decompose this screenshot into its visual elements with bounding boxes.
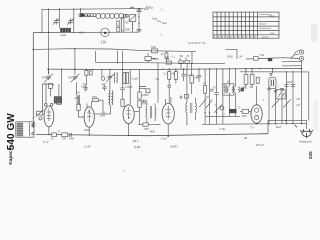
capacitor small [180, 96, 182, 99]
table outer frame [213, 12, 279, 38]
tick near plug [295, 125, 297, 127]
wire rail y32.5 [33, 31, 139, 33]
fuse lamp 1 [299, 50, 303, 54]
oscillator arrow 2 [214, 105, 222, 113]
svg-text:500Ω: 500Ω [227, 55, 233, 58]
coil winding vertical [116, 72, 119, 83]
tube T2 (AF) [84, 107, 94, 127]
wire bottom rail A [36, 134, 268, 136]
svg-text:80mA: 80mA [270, 15, 276, 18]
jack circle L10 [101, 28, 110, 37]
coil L1 big loops [96, 13, 101, 18]
svg-text:L42: L42 [75, 91, 81, 94]
trimmer box on coil end [129, 15, 136, 22]
svg-text:4000: 4000 [150, 131, 156, 134]
wire rail y49-51 [33, 49, 196, 52]
wire rail y116.4 [205, 115, 240, 117]
oscillator arrow [206, 69, 212, 124]
svg-text:2µF: 2µF [102, 83, 107, 86]
svg-text:11 AF: 11 AF [84, 146, 91, 149]
selector vertical 1 [267, 86, 271, 124]
svg-text:110: 110 [296, 104, 300, 107]
IF transformer T4 output [186, 103, 187, 113]
wire y114 [94, 113, 111, 115]
wire T2 cathode [88, 127, 90, 135]
capacitor C8 electrolytic [102, 85, 106, 91]
coil dense end loops [123, 15, 126, 18]
svg-text:1 ..: 1 .. [160, 8, 164, 11]
svg-text:Skalenl. ~ -: Skalenl. ~ - [259, 23, 269, 25]
resistor on rail [52, 133, 57, 137]
resistor boxes on rail y63 [166, 61, 171, 64]
tube T1 (output AL4) [45, 104, 48, 107]
scan speck [123, 170, 125, 172]
svg-text:AL4Z3: AL4Z3 [169, 146, 178, 149]
resistor box left of T2 [77, 104, 80, 110]
resistor rounded box x59 [57, 98, 62, 104]
resistor box x90.5 [89, 71, 92, 75]
svg-text:2000: 2000 [100, 115, 106, 118]
svg-text:0,05: 0,05 [81, 85, 86, 88]
junction dots right [162, 68, 163, 69]
capacitor near T3 [139, 87, 146, 89]
svg-text:0,05µF: 0,05µF [125, 86, 133, 89]
junction dots top section [48, 9, 49, 10]
capacitor [214, 69, 218, 124]
wire vertical x33.3 [32, 33, 34, 119]
tube T3 (AB2) [123, 105, 134, 124]
resistor box [242, 109, 248, 113]
svg-text:L7: L7 [221, 113, 225, 116]
svg-text:Wechselstrom: Wechselstrom [259, 27, 271, 30]
svg-text:L10: L10 [100, 40, 107, 44]
svg-text:4Ω: 4Ω [244, 137, 247, 140]
mains plug [295, 125, 313, 138]
capacitor bars top of x139 [137, 10, 142, 12]
electrolytic capacitor 40uF [284, 72, 288, 124]
electrolytic capacitor 2 [291, 72, 295, 124]
svg-text:A50: A50 [78, 31, 84, 35]
svg-text:500: 500 [68, 76, 73, 79]
wire y71.8 [240, 71, 309, 73]
svg-text:5,4: 5,4 [250, 127, 254, 130]
table column lines [217, 12, 258, 38]
svg-text:L·7Ω: L·7Ω [219, 128, 225, 131]
svg-text:50: 50 [58, 130, 61, 133]
svg-text:P 12: P 12 [42, 141, 49, 144]
selector arrows [272, 99, 291, 107]
antenna terminal circle [79, 14, 82, 17]
svg-text:U col: U col [161, 137, 167, 140]
thin resistor [256, 77, 259, 83]
svg-text:220V: 220V [270, 33, 275, 35]
wire corner x95.5 [95, 51, 97, 62]
svg-text:0,1µF: 0,1µF [132, 78, 139, 81]
capacitor on rail [70, 133, 72, 137]
grid cap circle [101, 70, 103, 77]
wire vertical x59.3 [58, 9, 60, 28]
wires tube T1 top [42, 84, 53, 111]
wire vertical x192 [191, 51, 193, 63]
svg-text:2W: 2W [239, 55, 243, 58]
svg-text:L8+: L8+ [146, 60, 152, 63]
capacitor C12 [182, 69, 186, 81]
capacitor C11 [141, 99, 147, 102]
barretter lamp [270, 73, 272, 75]
svg-text:20k: 20k [166, 58, 171, 61]
svg-text:50k: 50k [171, 73, 176, 76]
svg-text:5000: 5000 [241, 115, 247, 118]
mains line taps [246, 58, 299, 59]
svg-text:500k: 500k [151, 46, 157, 49]
svg-text:20µF: 20µF [276, 126, 282, 129]
svg-text:5: 5 [214, 104, 216, 107]
coil small loops [84, 14, 87, 17]
resistor R2 vertical [117, 27, 120, 32]
trimmer capacitor C2 [68, 19, 73, 25]
resistor box x205 [204, 69, 206, 86]
dark component box [230, 109, 237, 113]
oscillator coil windings [227, 87, 233, 93]
svg-text:w: w [263, 99, 265, 102]
tube T4 [162, 103, 174, 124]
svg-text:20: 20 [203, 82, 206, 85]
wire vertical x139.3 [138, 69, 140, 92]
resistor x191.7 [190, 75, 193, 83]
svg-text:(L)B2: (L)B2 [134, 146, 141, 149]
tube T5 rectifier [256, 86, 258, 105]
wire top rail [42, 8, 139, 11]
wire segment y124.6 [138, 124, 161, 126]
resistor pair x123-128 [123, 72, 125, 84]
capacitor C13 [197, 69, 201, 82]
svg-text:Netzanschl.: Netzanschl. [298, 141, 312, 144]
trimmer capacitor C5 [106, 74, 114, 82]
coil box below trimmer [48, 84, 52, 89]
svg-text:5000: 5000 [142, 102, 148, 105]
resistor 500k horizontal [92, 99, 98, 102]
power resistor [245, 69, 247, 75]
grid cap dot [168, 85, 171, 88]
svg-text:0,1: 0,1 [163, 73, 167, 76]
wire vertical x139 [138, 9, 140, 33]
svg-text:40µF: 40µF [287, 81, 293, 84]
wire corner to plug [268, 121, 307, 134]
iron-core coil dark block [54, 96, 62, 103]
wire vertical x42 [41, 9, 43, 32]
resistor on rail [62, 133, 68, 137]
svg-text:1: 1 [277, 85, 279, 88]
svg-text:Wellen: Wellen [84, 15, 92, 18]
table row lines [213, 17, 279, 35]
svg-text:400Ω: 400Ω [84, 129, 90, 132]
wire vertical x130 to T3 [129, 70, 131, 104]
antenna terminal stub [80, 9, 82, 14]
capacitor C9 [102, 112, 105, 114]
wire rail y62-63 [96, 62, 226, 63]
wire T3 anode right [134, 111, 139, 113]
svg-text:20000: 20000 [142, 94, 149, 97]
svg-text:500k: 500k [92, 96, 98, 99]
small loop chain lead blob [80, 13, 84, 16]
svg-text:L13 W31+12: L13 W31+12 [187, 41, 206, 45]
svg-text:220: 220 [296, 98, 301, 101]
resistor 50000 [138, 101, 141, 108]
capacitor C10 [120, 70, 124, 100]
fuse lamp 2 [299, 56, 303, 60]
svg-text:1M: 1M [74, 97, 78, 100]
svg-text:500: 500 [42, 76, 47, 79]
svg-text:5k: 5k [185, 58, 188, 61]
svg-text:25: 25 [237, 106, 240, 109]
svg-text:50: 50 [213, 87, 216, 90]
title Kapsch 540 GW vertical [6, 113, 17, 165]
choke coil with core (dark) [60, 28, 71, 32]
capacitor tall box [121, 18, 124, 31]
svg-text:5000: 5000 [69, 138, 75, 141]
switch contact marks [144, 6, 153, 10]
oscillator coil frame [223, 84, 234, 95]
resistor small [185, 95, 189, 99]
svg-text:gemeß: gemeß [262, 36, 269, 39]
wire vertical x48.6 [48, 9, 50, 73]
svg-text:50: 50 [206, 96, 209, 99]
capacitor C6 [32, 118, 36, 128]
svg-text:AH ·23: AH ·23 [255, 144, 265, 147]
power resistor 2 [251, 69, 253, 75]
IF transformer windings mid [109, 91, 110, 105]
selector vertical 3 [280, 89, 284, 124]
wire vertical x222.9 [222, 69, 224, 124]
switch blade [294, 50, 301, 55]
svg-text:50000: 50000 [152, 58, 159, 61]
wire vertical x117.5 [117, 51, 119, 63]
small box component [146, 89, 150, 93]
svg-text:235: 235 [308, 151, 313, 159]
svg-text:0,1µF: 0,1µF [186, 74, 193, 77]
wire T1 cathode to rail [48, 127, 50, 135]
loudspeaker with transformer [16, 122, 34, 137]
wire bottom rail C [202, 123, 307, 126]
trimmer capacitor C1 [54, 19, 59, 25]
wire right vertical to plug [308, 72, 310, 121]
trimmer capacitor C4 [74, 49, 76, 75]
junction terminal circle [39, 117, 42, 120]
wire vertical x133 [132, 21, 134, 32]
resistor on segment [143, 123, 148, 126]
capacitor bars bottom of x139 [137, 29, 142, 31]
wire top rail right stub with switch [139, 7, 144, 9]
wire T3 cathode [128, 124, 130, 136]
capacitor bars x211.6 [210, 89, 214, 91]
wire stub under table [226, 50, 238, 59]
selector arrow third [199, 99, 206, 107]
resistor R5 vertical [165, 53, 168, 58]
svg-text:Anod.: Anod. [60, 34, 67, 37]
resistor box above T3 [121, 99, 124, 106]
arrow end dot circle [220, 106, 224, 110]
svg-text:+0µ: +0µ [155, 78, 160, 81]
resistor R4 [145, 56, 151, 60]
housing rectangle [276, 90, 285, 99]
resistor 20000 [138, 92, 141, 99]
svg-text:%: % [226, 35, 229, 39]
diagonal tap [291, 54, 296, 58]
svg-text:500: 500 [62, 138, 67, 141]
coil winding vertical L4 [76, 95, 79, 105]
wire vertical x158 [157, 63, 159, 103]
svg-text:+2Ω: +2Ω [259, 54, 264, 57]
resistor chain T4 screen [168, 69, 170, 72]
svg-text:0,1: 0,1 [172, 55, 176, 58]
wire vertical x73.8 [73, 9, 75, 32]
svg-text:2000: 2000 [125, 28, 131, 31]
capacitor C7 [84, 85, 88, 92]
svg-text:4 .: 4 . [160, 33, 163, 36]
resistor [175, 69, 177, 72]
svg-text:0,1: 0,1 [51, 138, 55, 141]
selector vertical 2 [274, 88, 278, 124]
junction dots mid [48, 68, 49, 69]
svg-text:2k: 2k [161, 53, 164, 56]
fuse hump on rail [130, 7, 133, 9]
resistor box under rail x86 [85, 69, 87, 70]
wire vertical x122.5 [122, 51, 124, 70]
wire main rail y69 [47, 69, 301, 70]
AF transformer windings [145, 106, 148, 118]
scan smear right edge [311, 24, 317, 42]
svg-text:L8: L8 [226, 81, 230, 84]
wires y61.8 y65.9 [282, 62, 302, 66]
potentiometer box with arrow [37, 111, 43, 115]
svg-text:100: 100 [125, 21, 130, 24]
svg-text:1k: 1k [179, 58, 182, 61]
trimmer capacitor C3 [47, 69, 49, 75]
svg-text:L ..: L .. [159, 21, 164, 24]
svg-text:AB 2: AB 2 [132, 140, 139, 143]
resistor R3 on rail [152, 49, 158, 53]
wire stub [148, 53, 156, 59]
wire vertical x61.7 [61, 69, 63, 96]
resistor R1 vertical [117, 21, 120, 26]
svg-text:540 GW: 540 GW [6, 113, 17, 150]
winding third [223, 85, 226, 93]
